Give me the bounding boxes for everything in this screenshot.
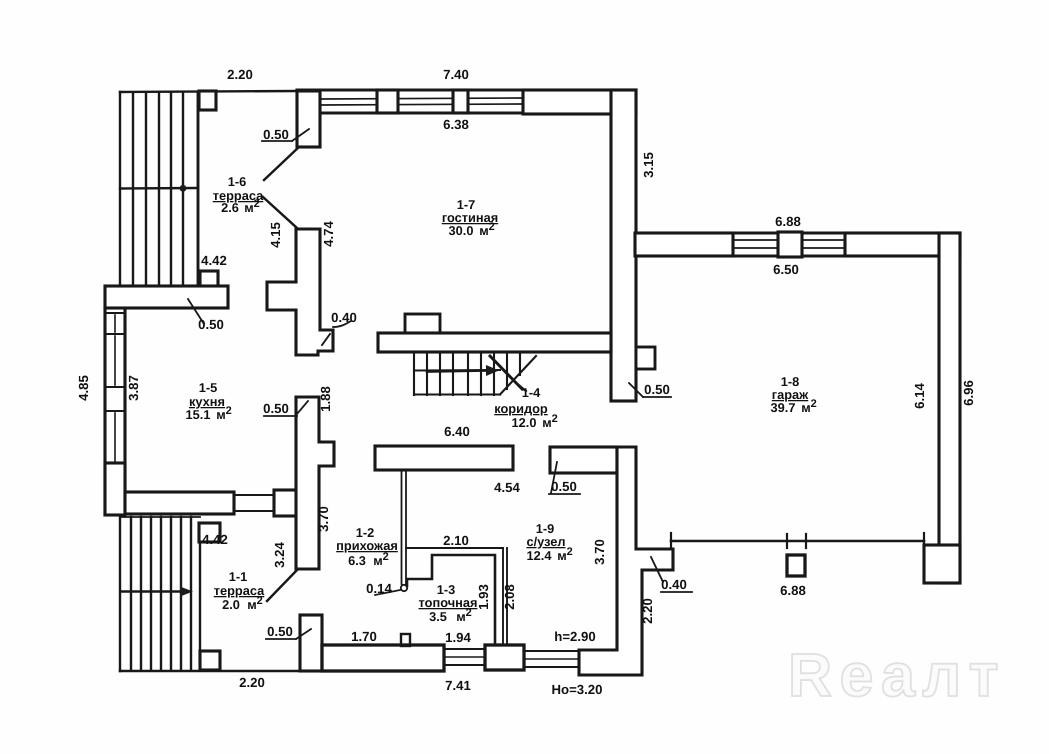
svg-text:м2: м2 xyxy=(247,595,263,612)
svg-text:0.50: 0.50 xyxy=(551,479,577,494)
svg-text:3.24: 3.24 xyxy=(272,542,287,568)
svg-text:7.41: 7.41 xyxy=(445,678,471,693)
svg-text:м2: м2 xyxy=(244,198,260,215)
svg-text:4.74: 4.74 xyxy=(321,221,336,247)
svg-text:1.93: 1.93 xyxy=(476,584,491,610)
svg-text:6.50: 6.50 xyxy=(773,262,799,277)
svg-text:м2: м2 xyxy=(216,405,232,422)
svg-text:4.15: 4.15 xyxy=(268,222,283,248)
svg-text:м2: м2 xyxy=(542,413,558,430)
svg-text:4.42: 4.42 xyxy=(201,253,227,268)
svg-text:Reaлт: Reaлт xyxy=(788,641,1006,709)
svg-text:м2: м2 xyxy=(557,546,573,563)
svg-text:15.1: 15.1 xyxy=(186,407,211,422)
svg-text:1-6: 1-6 xyxy=(228,174,247,189)
svg-text:Ho=3.20: Ho=3.20 xyxy=(552,682,603,697)
svg-text:1.70: 1.70 xyxy=(351,629,377,644)
svg-text:1-4: 1-4 xyxy=(522,385,541,400)
svg-text:2.0: 2.0 xyxy=(222,597,240,612)
svg-text:4.85: 4.85 xyxy=(76,375,91,401)
svg-text:2.6: 2.6 xyxy=(221,200,239,215)
svg-text:м2: м2 xyxy=(801,398,817,415)
svg-text:6.88: 6.88 xyxy=(775,214,801,229)
svg-text:0.40: 0.40 xyxy=(331,310,357,325)
svg-text:2.10: 2.10 xyxy=(443,533,469,548)
svg-text:0.50: 0.50 xyxy=(198,317,224,332)
svg-text:2.20: 2.20 xyxy=(227,67,253,82)
svg-text:0.14: 0.14 xyxy=(366,581,392,596)
svg-text:1-1: 1-1 xyxy=(229,569,248,584)
svg-text:3.70: 3.70 xyxy=(316,506,331,532)
svg-text:2.08: 2.08 xyxy=(502,584,517,610)
svg-text:1-5: 1-5 xyxy=(199,380,218,395)
svg-text:3.70: 3.70 xyxy=(592,539,607,565)
svg-text:h=2.90: h=2.90 xyxy=(554,629,595,644)
svg-text:6.38: 6.38 xyxy=(443,117,469,132)
svg-text:2.20: 2.20 xyxy=(239,675,265,690)
svg-text:3.5: 3.5 xyxy=(429,609,447,624)
svg-text:коридор: коридор xyxy=(494,401,548,416)
svg-text:0.50: 0.50 xyxy=(644,382,670,397)
svg-text:12.4: 12.4 xyxy=(527,548,553,563)
svg-text:4.54: 4.54 xyxy=(494,480,520,495)
svg-text:12.0: 12.0 xyxy=(512,415,537,430)
svg-text:30.0: 30.0 xyxy=(449,223,474,238)
svg-text:6.14: 6.14 xyxy=(912,383,927,409)
svg-text:0.50: 0.50 xyxy=(263,401,289,416)
svg-text:м2: м2 xyxy=(373,551,389,568)
svg-text:39.7: 39.7 xyxy=(771,400,796,415)
svg-text:2.20: 2.20 xyxy=(640,598,655,624)
svg-text:6.88: 6.88 xyxy=(780,583,806,598)
svg-text:7.40: 7.40 xyxy=(443,67,469,82)
svg-text:0.50: 0.50 xyxy=(267,624,293,639)
svg-text:0.40: 0.40 xyxy=(661,577,687,592)
svg-text:0.50: 0.50 xyxy=(263,127,289,142)
svg-text:с/узел: с/узел xyxy=(526,534,565,549)
svg-text:м2: м2 xyxy=(479,221,495,238)
svg-text:6.40: 6.40 xyxy=(444,424,470,439)
svg-text:6.3: 6.3 xyxy=(348,553,366,568)
svg-text:3.87: 3.87 xyxy=(126,375,141,401)
svg-text:м2: м2 xyxy=(456,607,472,624)
svg-text:3.15: 3.15 xyxy=(641,152,656,178)
svg-text:6.96: 6.96 xyxy=(961,380,976,406)
svg-text:4.42: 4.42 xyxy=(202,532,228,547)
svg-text:1.94: 1.94 xyxy=(445,630,471,645)
svg-text:1.88: 1.88 xyxy=(318,386,333,412)
